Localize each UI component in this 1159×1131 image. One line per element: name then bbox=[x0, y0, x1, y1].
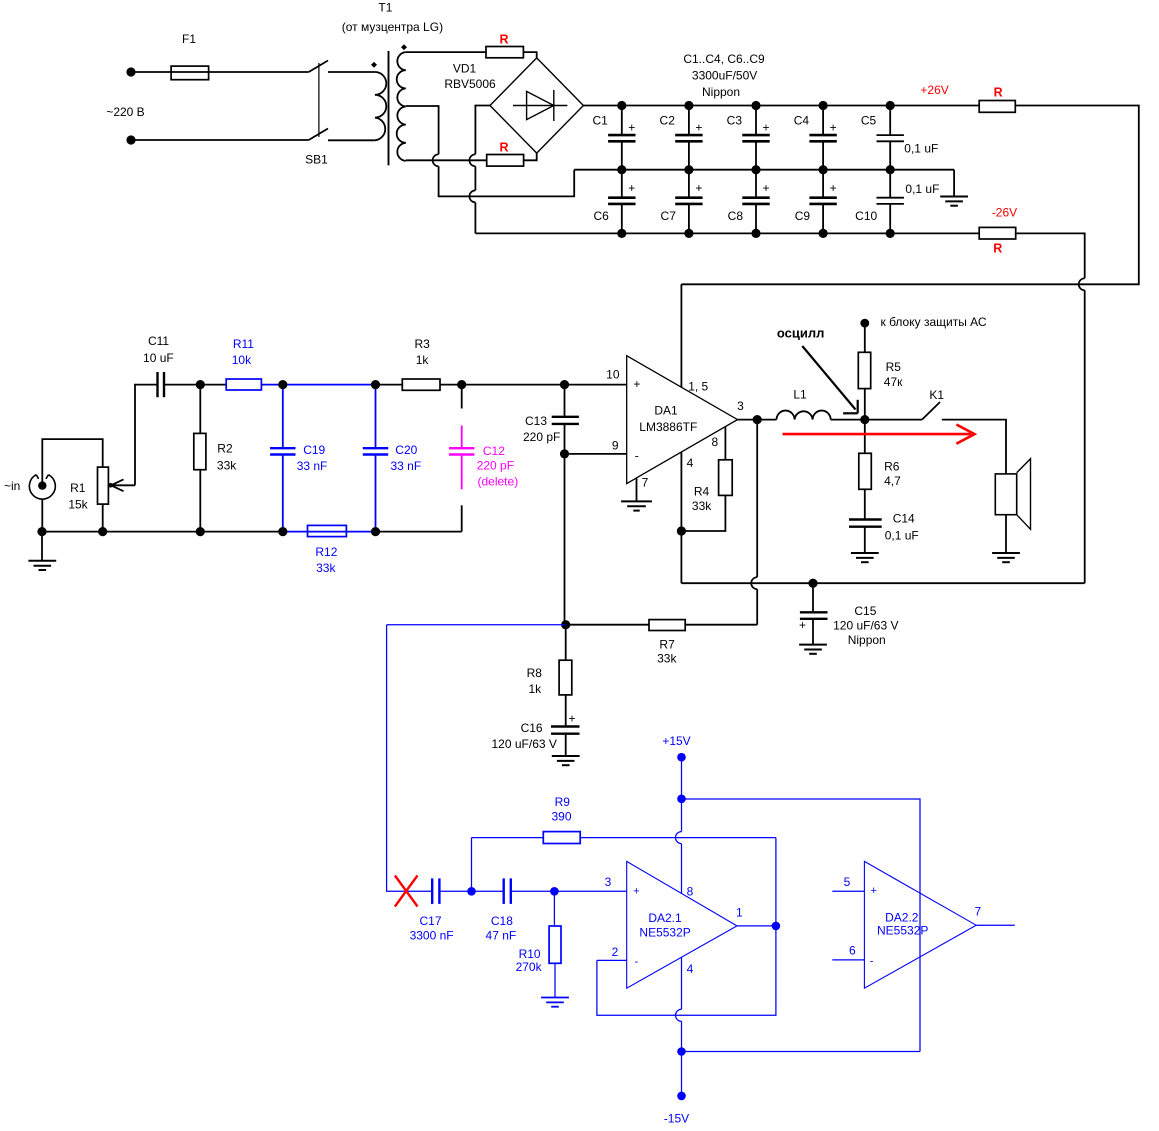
svg-text:NE5532P: NE5532P bbox=[639, 926, 690, 940]
svg-text:0,1 uF: 0,1 uF bbox=[904, 142, 938, 156]
svg-text:9: 9 bbox=[612, 439, 619, 453]
svg-text:+: + bbox=[695, 181, 702, 195]
svg-text:C8: C8 bbox=[728, 209, 744, 223]
svg-text:SB1: SB1 bbox=[305, 152, 328, 166]
svg-text:10k: 10k bbox=[232, 353, 252, 367]
svg-text:+: + bbox=[830, 181, 837, 195]
svg-text:DA1: DA1 bbox=[654, 404, 678, 418]
svg-text:+: + bbox=[870, 885, 876, 897]
svg-text:270k: 270k bbox=[516, 960, 543, 974]
svg-text:33 nF: 33 nF bbox=[391, 459, 422, 473]
svg-text:R5: R5 bbox=[886, 360, 902, 374]
svg-text:C12: C12 bbox=[483, 444, 505, 458]
svg-text:R9: R9 bbox=[555, 795, 571, 809]
svg-text:C16: C16 bbox=[521, 721, 543, 735]
svg-text:R12: R12 bbox=[315, 545, 337, 559]
svg-text:C1: C1 bbox=[592, 114, 608, 128]
svg-text:+: + bbox=[799, 618, 806, 632]
svg-text:C5: C5 bbox=[861, 114, 877, 128]
svg-text:C17: C17 bbox=[419, 914, 441, 928]
svg-text:33k: 33k bbox=[217, 458, 237, 472]
svg-text:120 uF/63 V: 120 uF/63 V bbox=[833, 618, 898, 632]
svg-text:3300uF/50V: 3300uF/50V bbox=[692, 69, 757, 83]
svg-text:390: 390 bbox=[551, 810, 571, 824]
svg-text:T1: T1 bbox=[378, 1, 392, 15]
svg-text:R: R bbox=[994, 86, 1003, 100]
svg-text:C11: C11 bbox=[148, 334, 169, 348]
svg-text:5: 5 bbox=[844, 875, 851, 889]
svg-text:Nippon: Nippon bbox=[702, 85, 740, 99]
svg-text:1k: 1k bbox=[416, 353, 430, 367]
svg-text:+: + bbox=[568, 711, 575, 725]
svg-text:к блоку защиты АС: к блоку защиты АС bbox=[881, 315, 987, 329]
svg-text:4: 4 bbox=[687, 962, 694, 976]
svg-text:10: 10 bbox=[606, 367, 620, 381]
svg-text:C9: C9 bbox=[795, 209, 811, 223]
svg-text:C13: C13 bbox=[525, 414, 547, 428]
svg-text:+: + bbox=[633, 885, 639, 897]
svg-text:8: 8 bbox=[687, 884, 694, 898]
svg-text:C18: C18 bbox=[491, 914, 513, 928]
svg-text:4: 4 bbox=[687, 456, 694, 470]
svg-text:-: - bbox=[635, 448, 639, 462]
svg-text:-: - bbox=[870, 956, 874, 968]
svg-text:(от музцентра LG): (от музцентра LG) bbox=[342, 20, 443, 34]
svg-text:C4: C4 bbox=[794, 114, 810, 128]
svg-text:+: + bbox=[628, 181, 635, 195]
svg-text:6: 6 bbox=[849, 944, 856, 958]
svg-text:K1: K1 bbox=[929, 388, 944, 402]
svg-text:3300 nF: 3300 nF bbox=[410, 928, 454, 942]
svg-text:+: + bbox=[633, 377, 640, 391]
svg-text:C19: C19 bbox=[303, 443, 325, 457]
svg-text:R: R bbox=[499, 141, 508, 155]
svg-text:2: 2 bbox=[612, 945, 619, 959]
svg-text:7: 7 bbox=[975, 905, 982, 919]
svg-text:C10: C10 bbox=[855, 209, 877, 223]
svg-text:+15V: +15V bbox=[662, 734, 690, 748]
svg-text:1, 5: 1, 5 bbox=[688, 380, 708, 394]
svg-text:7: 7 bbox=[642, 476, 649, 490]
svg-text:8: 8 bbox=[712, 435, 719, 449]
svg-text:+: + bbox=[695, 120, 702, 134]
svg-text:VD1: VD1 bbox=[453, 62, 477, 76]
svg-text:F1: F1 bbox=[182, 32, 196, 46]
svg-text:NE5532P: NE5532P bbox=[877, 923, 928, 937]
svg-text:0,1 uF: 0,1 uF bbox=[885, 529, 919, 543]
svg-text:+26V: +26V bbox=[920, 83, 948, 97]
svg-text:3: 3 bbox=[605, 875, 612, 889]
svg-text:0,1 uF: 0,1 uF bbox=[905, 182, 939, 196]
svg-text:C7: C7 bbox=[661, 209, 677, 223]
svg-text:C20: C20 bbox=[395, 443, 417, 457]
svg-text:33k: 33k bbox=[316, 561, 336, 575]
svg-text:C3: C3 bbox=[727, 114, 743, 128]
svg-text:15k: 15k bbox=[68, 497, 88, 511]
svg-text:C6: C6 bbox=[593, 209, 609, 223]
svg-text:3: 3 bbox=[737, 399, 744, 413]
svg-text:(delete): (delete) bbox=[478, 475, 519, 489]
svg-text:47к: 47к bbox=[884, 375, 903, 389]
svg-text:R: R bbox=[499, 33, 508, 47]
svg-text:LM3886TF: LM3886TF bbox=[639, 420, 697, 434]
svg-text:C15: C15 bbox=[854, 604, 876, 618]
svg-text:R8: R8 bbox=[527, 666, 543, 680]
svg-text:~220 В: ~220 В bbox=[106, 105, 144, 119]
svg-text:220 pF: 220 pF bbox=[477, 459, 514, 473]
svg-text:C1..C4, C6..C9: C1..C4, C6..C9 bbox=[683, 52, 765, 66]
svg-text:R1: R1 bbox=[70, 481, 86, 495]
svg-text:-15V: -15V bbox=[664, 1112, 689, 1126]
svg-text:R2: R2 bbox=[217, 441, 233, 455]
svg-text:~in: ~in bbox=[4, 479, 20, 493]
svg-text:+: + bbox=[762, 120, 769, 134]
svg-text:RBV5006: RBV5006 bbox=[444, 77, 496, 91]
svg-text:33k: 33k bbox=[657, 652, 677, 666]
svg-text:осцилл: осцилл bbox=[777, 326, 825, 341]
svg-text:Nippon: Nippon bbox=[848, 633, 886, 647]
svg-text:4,7: 4,7 bbox=[884, 474, 901, 488]
svg-text:R4: R4 bbox=[694, 485, 710, 499]
svg-text:C2: C2 bbox=[660, 114, 676, 128]
svg-text:10 uF: 10 uF bbox=[143, 351, 174, 365]
svg-text:+: + bbox=[830, 120, 837, 134]
svg-text:33 nF: 33 nF bbox=[297, 459, 328, 473]
svg-text:R11: R11 bbox=[233, 337, 254, 351]
svg-text:C14: C14 bbox=[893, 512, 915, 526]
svg-text:-26V: -26V bbox=[992, 205, 1017, 219]
svg-text:33k: 33k bbox=[692, 499, 712, 513]
svg-text:-: - bbox=[634, 956, 638, 968]
svg-text:+: + bbox=[628, 120, 635, 134]
svg-text:R10: R10 bbox=[519, 947, 541, 961]
svg-text:R6: R6 bbox=[884, 460, 900, 474]
svg-text:120 uF/63 V: 120 uF/63 V bbox=[492, 737, 557, 751]
svg-text:DA2.1: DA2.1 bbox=[648, 911, 682, 925]
svg-text:1k: 1k bbox=[528, 682, 542, 696]
svg-text:R: R bbox=[993, 242, 1002, 256]
svg-text:220 pF: 220 pF bbox=[523, 430, 560, 444]
svg-text:R7: R7 bbox=[659, 637, 675, 651]
svg-text:1: 1 bbox=[736, 906, 743, 920]
svg-text:+: + bbox=[762, 181, 769, 195]
svg-text:R3: R3 bbox=[415, 337, 431, 351]
svg-text:L1: L1 bbox=[793, 388, 807, 402]
svg-text:47 nF: 47 nF bbox=[486, 928, 517, 942]
